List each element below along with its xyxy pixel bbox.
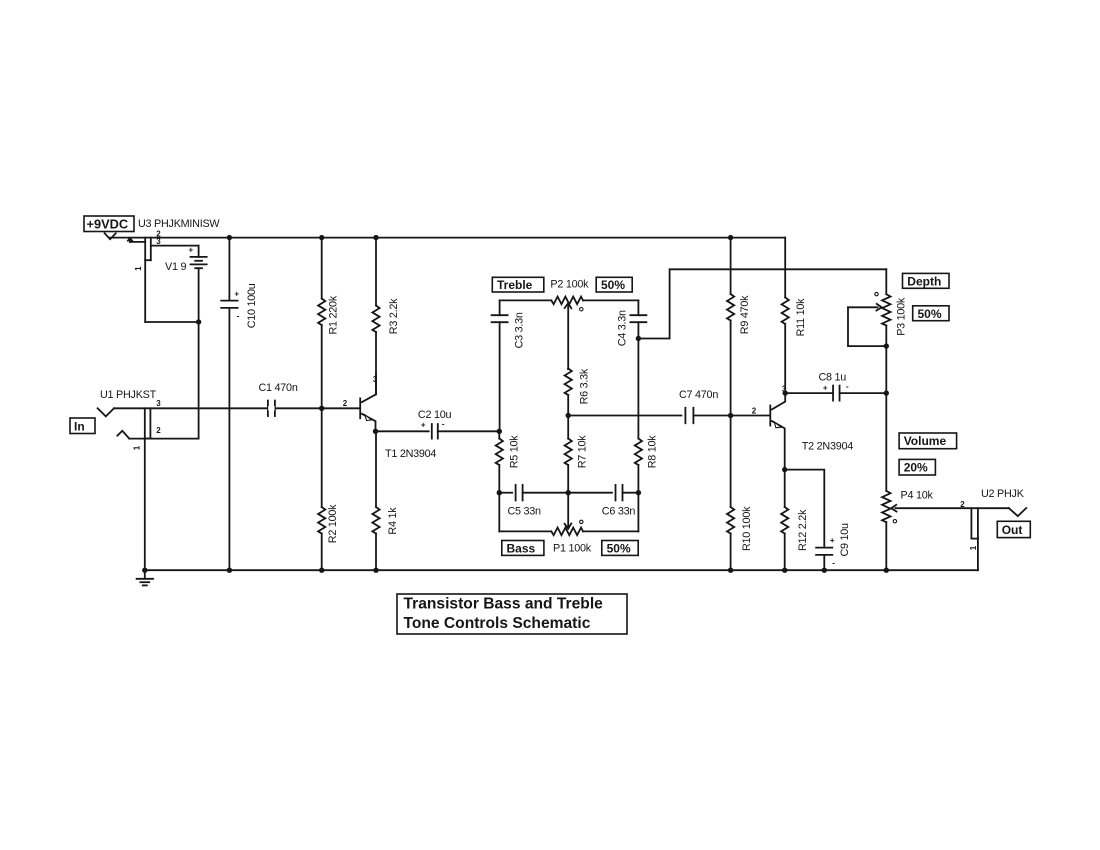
wire ground rail (145, 569, 978, 571)
P2 percent label (596, 277, 632, 292)
junction C4 bottom (636, 336, 641, 341)
svg-text:Transistor Bass and Treble: Transistor Bass and Treble (404, 595, 604, 612)
pot label Bass (502, 541, 544, 556)
resistor R1 220k (321, 238, 323, 299)
junction C8 P3 P4 (884, 390, 889, 395)
capacitor C10 100u (228, 238, 230, 301)
svg-text:Bass: Bass (507, 542, 536, 556)
jack U1 ring contact (117, 431, 129, 439)
wire treble pot left (500, 299, 552, 301)
wire bass pot right leg (637, 493, 639, 532)
junction R4 ground (373, 568, 378, 573)
wire bass pot left (499, 530, 551, 532)
resistor R5 10k (498, 431, 500, 438)
potentiometer P1 100k (551, 528, 583, 536)
transistor Q T1 2N3904 (359, 398, 361, 418)
junction R7 C5 C6 (566, 490, 571, 495)
junction ground (142, 568, 147, 573)
P1 percent label (602, 541, 638, 556)
resistor R6 3.3k (567, 368, 569, 370)
capacitor C3 3.3n (499, 300, 501, 315)
svg-text:+: + (823, 383, 828, 392)
jack U1 tip contact (98, 408, 114, 416)
svg-text:U2 PHJK: U2 PHJK (981, 488, 1025, 500)
junction P4 ground (884, 568, 889, 573)
wire U1 pin1 to ground (144, 439, 146, 571)
svg-text:P4 10k: P4 10k (901, 490, 934, 502)
wire T2 emitter to C9 (785, 470, 825, 548)
junction R12 ground (782, 568, 787, 573)
svg-text:3: 3 (782, 384, 787, 393)
junction P3 bottom (884, 343, 889, 348)
svg-text:C1 470n: C1 470n (259, 382, 298, 394)
svg-text:P1 100k: P1 100k (553, 543, 592, 555)
svg-text:C4 3.3n: C4 3.3n (616, 310, 628, 346)
junction R9 R10 T2 base (728, 413, 733, 418)
title box (397, 594, 627, 634)
junction C3 R5 node (497, 429, 502, 434)
capacitor C9 10u (816, 547, 832, 549)
svg-text:R4 1k: R4 1k (387, 507, 399, 535)
junction R1 bottom node (319, 406, 324, 411)
svg-text:R8 10k: R8 10k (646, 435, 658, 469)
node +9VDC tap check (105, 233, 116, 239)
svg-text:+: + (189, 245, 194, 254)
svg-text:R11 10k: R11 10k (795, 298, 807, 337)
jack U3 body (144, 238, 146, 261)
svg-text:P2 100k: P2 100k (550, 279, 589, 291)
junction R5 C5 (497, 490, 502, 495)
junction mid node (566, 413, 571, 418)
resistor R2 100k (321, 408, 323, 507)
power label +9VDC (84, 216, 134, 232)
wire T1 emitter to C2 (376, 430, 429, 432)
svg-text:1: 1 (969, 545, 978, 550)
svg-text:2: 2 (343, 399, 348, 408)
P3 percent label (913, 306, 949, 321)
svg-text:-: - (237, 312, 240, 321)
svg-text:In: In (74, 419, 85, 433)
svg-text:U3 PHJKMINISW: U3 PHJKMINISW (138, 218, 220, 230)
svg-text:50%: 50% (918, 307, 942, 321)
capacitor C5 33n (499, 492, 512, 494)
svg-text:Tone Controls Schematic: Tone Controls Schematic (404, 615, 591, 632)
junction battery minus (196, 319, 201, 324)
svg-text:R3 2.2k: R3 2.2k (388, 298, 400, 334)
svg-text:+: + (421, 420, 426, 429)
svg-text:Volume: Volume (904, 434, 947, 448)
wire bass pot right (583, 530, 638, 532)
P3 wiper (876, 304, 881, 311)
svg-text:-: - (832, 559, 835, 568)
svg-text:R5 10k: R5 10k (508, 435, 520, 469)
junction T2 collector (783, 390, 788, 395)
node label In (70, 418, 95, 434)
potentiometer P4 10k (885, 393, 887, 491)
capacitor C4 3.3n (637, 300, 639, 315)
wire mid node to C7 (568, 415, 681, 417)
transistor Q T2 2N3904 (769, 406, 771, 426)
junction R1 top (319, 235, 324, 240)
svg-text:+: + (234, 289, 239, 298)
svg-text:R6 3.3k: R6 3.3k (578, 368, 590, 404)
capacitor C7 470n (684, 408, 686, 424)
svg-text:C7 470n: C7 470n (679, 389, 718, 401)
svg-text:R12 2.2k: R12 2.2k (797, 509, 809, 551)
resistor R9 470k (730, 238, 732, 294)
capacitor C2 10u (431, 424, 433, 439)
svg-text:Depth: Depth (907, 275, 941, 289)
wire C7 to T2 base (693, 415, 769, 417)
capacitor C8 1u (785, 392, 833, 394)
svg-text:2: 2 (156, 426, 161, 435)
svg-text:-: - (442, 419, 445, 428)
resistor R12 2.2k (784, 470, 786, 507)
svg-text:R2 100k: R2 100k (327, 504, 339, 543)
svg-text:1: 1 (134, 266, 143, 271)
resistor R7 10k (567, 416, 569, 439)
wire treble pot right (583, 299, 638, 301)
battery V1 (198, 246, 200, 257)
svg-text:V1 9: V1 9 (165, 261, 186, 273)
jack U3 switch contact arrow (130, 241, 145, 243)
junction R9 top (728, 235, 733, 240)
junction C9 ground (822, 568, 827, 573)
potentiometer P3 100k (885, 269, 887, 294)
svg-text:R9 470k: R9 470k (739, 295, 751, 334)
svg-text:R10 100k: R10 100k (741, 506, 753, 551)
potentiometer P2 100k (551, 297, 583, 305)
svg-text:3: 3 (373, 375, 378, 384)
capacitor C1 470n (267, 401, 269, 417)
wire U3 pin3 to battery+ (151, 245, 199, 247)
junction T2 emitter (782, 467, 787, 472)
resistor R4 1k (375, 431, 377, 507)
svg-text:R7 10k: R7 10k (576, 435, 588, 469)
svg-text:C8 1u: C8 1u (819, 372, 847, 384)
junction C10 top (227, 235, 232, 240)
svg-text:C6 33n: C6 33n (602, 506, 636, 518)
junction C10 bottom (227, 568, 232, 573)
svg-text:R1 220k: R1 220k (328, 295, 340, 334)
resistor R10 100k (730, 416, 732, 508)
pot label Depth (903, 273, 950, 288)
svg-text:C5 33n: C5 33n (508, 506, 542, 518)
wire C2 to tone stack (438, 430, 500, 432)
P1 wiper (567, 493, 569, 529)
pot label Treble (492, 277, 544, 292)
wire to U1 pin2 (198, 322, 200, 439)
svg-text:T2 2N3904: T2 2N3904 (802, 441, 853, 453)
capacitor C6 33n (615, 485, 617, 501)
svg-text:20%: 20% (904, 461, 928, 475)
svg-text:1: 1 (132, 445, 141, 450)
svg-text:T1 2N3904: T1 2N3904 (385, 448, 436, 460)
wire input signal to T1 base (114, 407, 360, 409)
svg-text:3: 3 (156, 399, 161, 408)
ground (144, 570, 146, 579)
svg-text:P3 100k: P3 100k (896, 297, 908, 336)
svg-text:+: + (830, 536, 835, 545)
wire V+ top rail (110, 237, 785, 239)
svg-text:2: 2 (960, 500, 965, 509)
svg-text:-: - (846, 382, 849, 391)
P4 wiper (891, 505, 896, 512)
T1 emitter arrow (365, 415, 372, 421)
P4 percent label (899, 459, 935, 475)
svg-text:50%: 50% (607, 542, 631, 556)
svg-text:U1 PHJKST: U1 PHJKST (100, 389, 157, 401)
svg-text:50%: 50% (601, 278, 625, 292)
junction R2 ground (319, 568, 324, 573)
svg-text:C3 3.3n: C3 3.3n (513, 312, 525, 348)
T2 emitter arrow (774, 422, 781, 428)
junction R10 ground (728, 568, 733, 573)
svg-text:Treble: Treble (497, 278, 533, 292)
wire P3 to C8 node (885, 346, 887, 393)
junction R8 C6 (636, 490, 641, 495)
resistor R3 2.2k (375, 238, 377, 306)
wire U2 pin1 to ground (977, 539, 979, 571)
resistor R8 10k (637, 339, 639, 439)
svg-text:+9VDC: +9VDC (87, 216, 129, 231)
jack U2 body (970, 508, 972, 538)
svg-text:C2 10u: C2 10u (418, 409, 452, 421)
junction T1 emitter (373, 429, 378, 434)
wire C4 junction to depth pot (638, 269, 886, 338)
P2 wiper (565, 303, 572, 308)
svg-text:2: 2 (752, 407, 757, 416)
svg-text:Out: Out (1002, 523, 1023, 537)
wire battery minus (145, 321, 198, 323)
pot label Volume (899, 433, 957, 449)
jack U2 tip contact (1009, 508, 1026, 516)
node label Out (997, 521, 1030, 537)
svg-text:C10 100u: C10 100u (246, 283, 258, 328)
wire U1 pin2 (129, 438, 198, 440)
svg-text:C9 10u: C9 10u (839, 523, 851, 557)
wire U3 pin1 down (144, 260, 146, 322)
resistor R11 10k (784, 238, 786, 298)
wire P3 wiper loop (848, 307, 886, 346)
junction R3 top (373, 235, 378, 240)
jack U1 body (144, 408, 146, 438)
wire bass pot left leg (498, 493, 500, 532)
